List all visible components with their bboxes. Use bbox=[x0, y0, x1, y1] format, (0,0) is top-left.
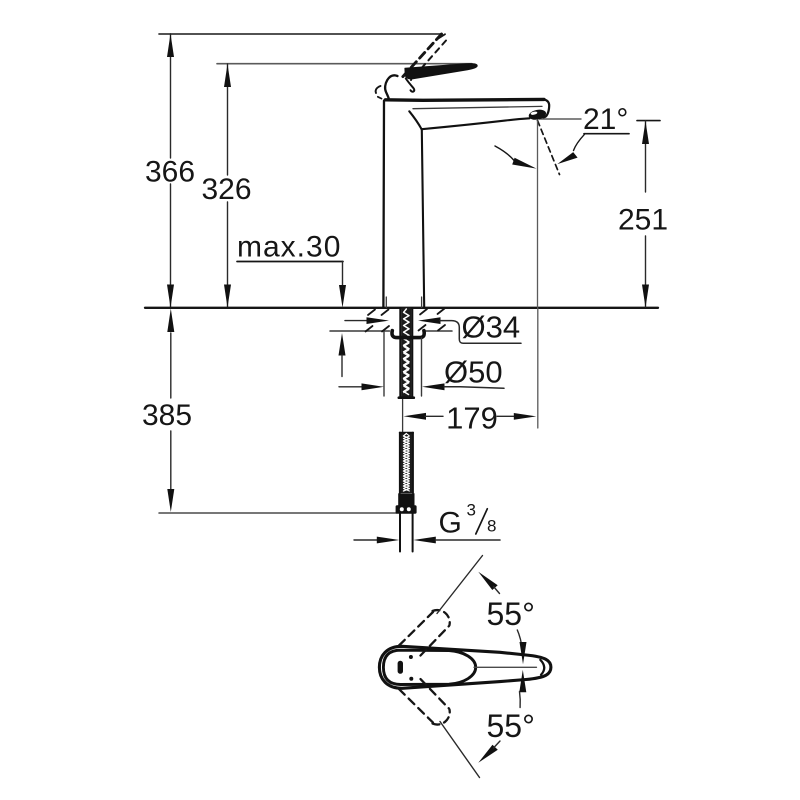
wire top extension line 366 bbox=[159, 33, 441, 35]
wire swivel arc bbox=[495, 146, 515, 161]
arrow swivel at vertical line bbox=[512, 158, 536, 169]
wire deck line bbox=[145, 307, 658, 309]
hose connector nut bbox=[396, 505, 417, 514]
dimension diameter50 line left bbox=[339, 386, 362, 388]
svg-text:385: 385 bbox=[142, 399, 192, 432]
svg-text:3: 3 bbox=[467, 501, 476, 520]
arrow 251 top bbox=[642, 121, 649, 144]
column right edge bbox=[422, 130, 424, 308]
wire 21deg arc leader bbox=[574, 134, 585, 150]
dashed handle rotated up edge2 bbox=[421, 626, 450, 656]
base inner stub left bbox=[385, 297, 387, 308]
arrow 179 right bbox=[514, 413, 537, 420]
svg-text:G: G bbox=[439, 507, 462, 540]
spout underside bbox=[422, 118, 530, 129]
arrow 385 top up at deck bbox=[167, 309, 174, 333]
spout underside bevel bbox=[409, 111, 421, 129]
wire dashed stream line bbox=[538, 121, 560, 175]
wire extension line 326 bbox=[217, 63, 472, 65]
arrow d34 left bbox=[367, 317, 390, 324]
arrow G38 left bbox=[377, 537, 400, 544]
hose connector upper bbox=[398, 493, 414, 506]
svg-text:Ø34: Ø34 bbox=[462, 310, 521, 345]
wire max.30 leader vertical bbox=[342, 262, 344, 287]
dimension clamp extension left bbox=[383, 332, 385, 396]
dimension 251 vertical line bbox=[645, 121, 647, 192]
wire 55 lower leader bbox=[494, 741, 501, 748]
arrow G38 right bbox=[413, 537, 436, 544]
wire max.30 lower tail bbox=[341, 355, 343, 377]
arrow 326 top bbox=[224, 64, 231, 87]
wire 55 lower arc from tip bbox=[519, 692, 522, 708]
wire deck bottom left bbox=[330, 330, 390, 332]
dimension G3/8 line right bbox=[436, 539, 501, 541]
arrow 385 bottom down bbox=[167, 489, 174, 512]
handle raised dashed line 2 bbox=[411, 41, 446, 81]
dimension 251 top tick bbox=[637, 120, 660, 122]
handle raised dashed line 1 bbox=[403, 34, 442, 77]
arrow 366 top bbox=[167, 34, 174, 57]
handle dome bbox=[385, 75, 397, 98]
mounting nut washer bbox=[392, 331, 424, 338]
dimension 385 vertical line bbox=[170, 333, 172, 398]
dimension 179 extension left bbox=[402, 400, 404, 432]
dashed handle rotated up cap bbox=[433, 610, 450, 625]
arrow max.30 down at deck bbox=[339, 285, 346, 308]
svg-text:251: 251 bbox=[618, 204, 668, 237]
top view tip inner arc bbox=[540, 660, 544, 675]
arrow d34 right bbox=[418, 317, 441, 324]
dimension 55 lower ray bbox=[440, 722, 480, 778]
dashed handle rotated up edge1 bbox=[399, 612, 433, 646]
lever mark dot bottom bbox=[409, 677, 413, 681]
wire 21deg leader from aerator bbox=[539, 118, 581, 120]
arrow 21deg at stream bbox=[557, 152, 577, 164]
dimension G3/8 line left bbox=[354, 539, 378, 541]
wire 55 upper arc to tip bbox=[517, 630, 521, 645]
mounting shank threaded bbox=[401, 308, 411, 398]
dimension d50 line right (underline) bbox=[444, 387, 504, 389]
arrow 55 lower at spout bbox=[519, 670, 526, 692]
column left edge bbox=[382, 101, 385, 308]
lever mark dot top bbox=[409, 655, 413, 659]
svg-text:Ø50: Ø50 bbox=[444, 355, 503, 390]
arrow 179 left bbox=[404, 413, 427, 420]
wire hose-end reference line bbox=[159, 512, 397, 514]
wire 21deg underline bbox=[584, 133, 629, 135]
arrow d50 left bbox=[362, 383, 385, 390]
wire 55 upper leader bbox=[494, 587, 500, 594]
dashed handle rotated down edge2 bbox=[421, 679, 450, 709]
svg-text:max.30: max.30 bbox=[237, 231, 341, 264]
arrow 55 upper at ray bbox=[478, 572, 497, 590]
arrow 326 bottom bbox=[224, 285, 231, 308]
wire 179 line left segment bbox=[425, 415, 443, 417]
svg-text:326: 326 bbox=[201, 173, 251, 206]
wire deck bottom right bbox=[424, 330, 453, 332]
dashed arc small left of dome bbox=[376, 86, 381, 93]
svg-text:8: 8 bbox=[487, 517, 496, 536]
svg-text:366: 366 bbox=[145, 156, 195, 189]
svg-text:55°: 55° bbox=[487, 708, 535, 744]
top view lever capsule bbox=[383, 650, 475, 684]
wire max.30 underline bbox=[237, 261, 343, 263]
arrow 55 upper at spout bbox=[520, 642, 527, 664]
dimension d34 line right with step bbox=[440, 321, 521, 344]
svg-text:179: 179 bbox=[446, 401, 498, 436]
arrow max.30 up at deck bottom bbox=[339, 333, 346, 356]
arrow 366 bottom bbox=[167, 285, 174, 308]
arrow 251 bottom bbox=[642, 285, 649, 308]
lever mark bar bbox=[398, 661, 403, 674]
handle raised tip tick bbox=[438, 34, 446, 39]
top view center line bbox=[474, 666, 537, 668]
spout tip curve bbox=[543, 99, 550, 117]
svg-text:21°: 21° bbox=[583, 103, 628, 136]
arrow d50 right bbox=[422, 383, 445, 390]
handle lever blade solid bbox=[405, 64, 477, 79]
handle neck right side bbox=[406, 79, 414, 92]
top view outer silhouette bbox=[379, 646, 551, 688]
hatch marks deck section bbox=[366, 309, 446, 332]
flexible hose braided bbox=[401, 433, 413, 494]
dimension 55 upper ray bbox=[437, 556, 483, 614]
spout inner thin line bbox=[413, 106, 542, 108]
dimension diameter34 line left bbox=[345, 320, 367, 322]
dashed handle rotated down edge1 bbox=[399, 689, 433, 723]
wire 179 line right segment bbox=[497, 415, 514, 417]
arrow 55 lower at ray bbox=[478, 745, 498, 763]
dimension 366 vertical line bbox=[170, 34, 172, 158]
dimension 326 vertical line bbox=[227, 64, 229, 175]
dimension clamp extension right bbox=[421, 338, 423, 396]
base inner stub right bbox=[421, 297, 423, 308]
svg-text:55°: 55° bbox=[487, 596, 535, 632]
wire spout tip extension vertical bbox=[537, 121, 539, 307]
connection tube bbox=[399, 514, 401, 552]
aerator bbox=[528, 108, 547, 121]
dashed handle rotated down cap bbox=[433, 710, 450, 725]
body top bar and spout top bbox=[386, 98, 545, 102]
